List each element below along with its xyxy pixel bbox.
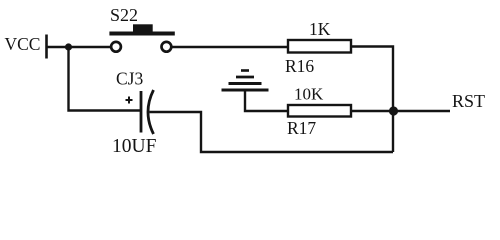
ground bbox=[222, 71, 269, 91]
svg-text:10K: 10K bbox=[294, 85, 324, 104]
wire R16 right pin down to node RST bbox=[351, 47, 393, 153]
wire switch S22 right pin to resistor R16 bbox=[172, 46, 288, 48]
wire R17 right pin to RST stub bbox=[351, 110, 450, 112]
svg-text:1K: 1K bbox=[309, 19, 331, 39]
svg-text:VCC: VCC bbox=[5, 34, 41, 54]
resistor R16 bbox=[288, 40, 351, 53]
junction node RST bbox=[389, 106, 398, 115]
VCC terminal bar bbox=[45, 35, 48, 59]
label R17 bbox=[287, 118, 316, 138]
wire VCC terminal to switch S22 left pin bbox=[47, 46, 111, 48]
capacitor CJ3 plus sign bbox=[126, 97, 133, 104]
label CJ3 bbox=[116, 69, 143, 89]
svg-text:R17: R17 bbox=[287, 118, 316, 138]
capacitor CJ3 bbox=[141, 90, 154, 134]
net RST label bbox=[452, 91, 485, 111]
svg-text:CJ3: CJ3 bbox=[116, 69, 143, 89]
value 10UF bbox=[112, 136, 157, 157]
wire node A down to capacitor CJ3 bbox=[69, 47, 141, 111]
wire ground to resistor R17 left pin bbox=[245, 90, 288, 111]
label R16 bbox=[285, 56, 314, 76]
svg-text:RST: RST bbox=[452, 91, 485, 111]
resistor R17 bbox=[288, 105, 351, 117]
label S22 bbox=[110, 5, 138, 25]
svg-text:R16: R16 bbox=[285, 56, 314, 76]
net VCC label bbox=[5, 34, 41, 54]
svg-text:S22: S22 bbox=[110, 5, 138, 25]
value 10K bbox=[294, 85, 324, 104]
junction node A (VCC rail / capacitor tap) bbox=[65, 43, 72, 50]
wire capacitor CJ3 to bottom rail bbox=[150, 112, 394, 152]
svg-text:10UF: 10UF bbox=[112, 136, 157, 157]
switch S22 bbox=[109, 24, 174, 51]
value 1K bbox=[309, 19, 331, 39]
